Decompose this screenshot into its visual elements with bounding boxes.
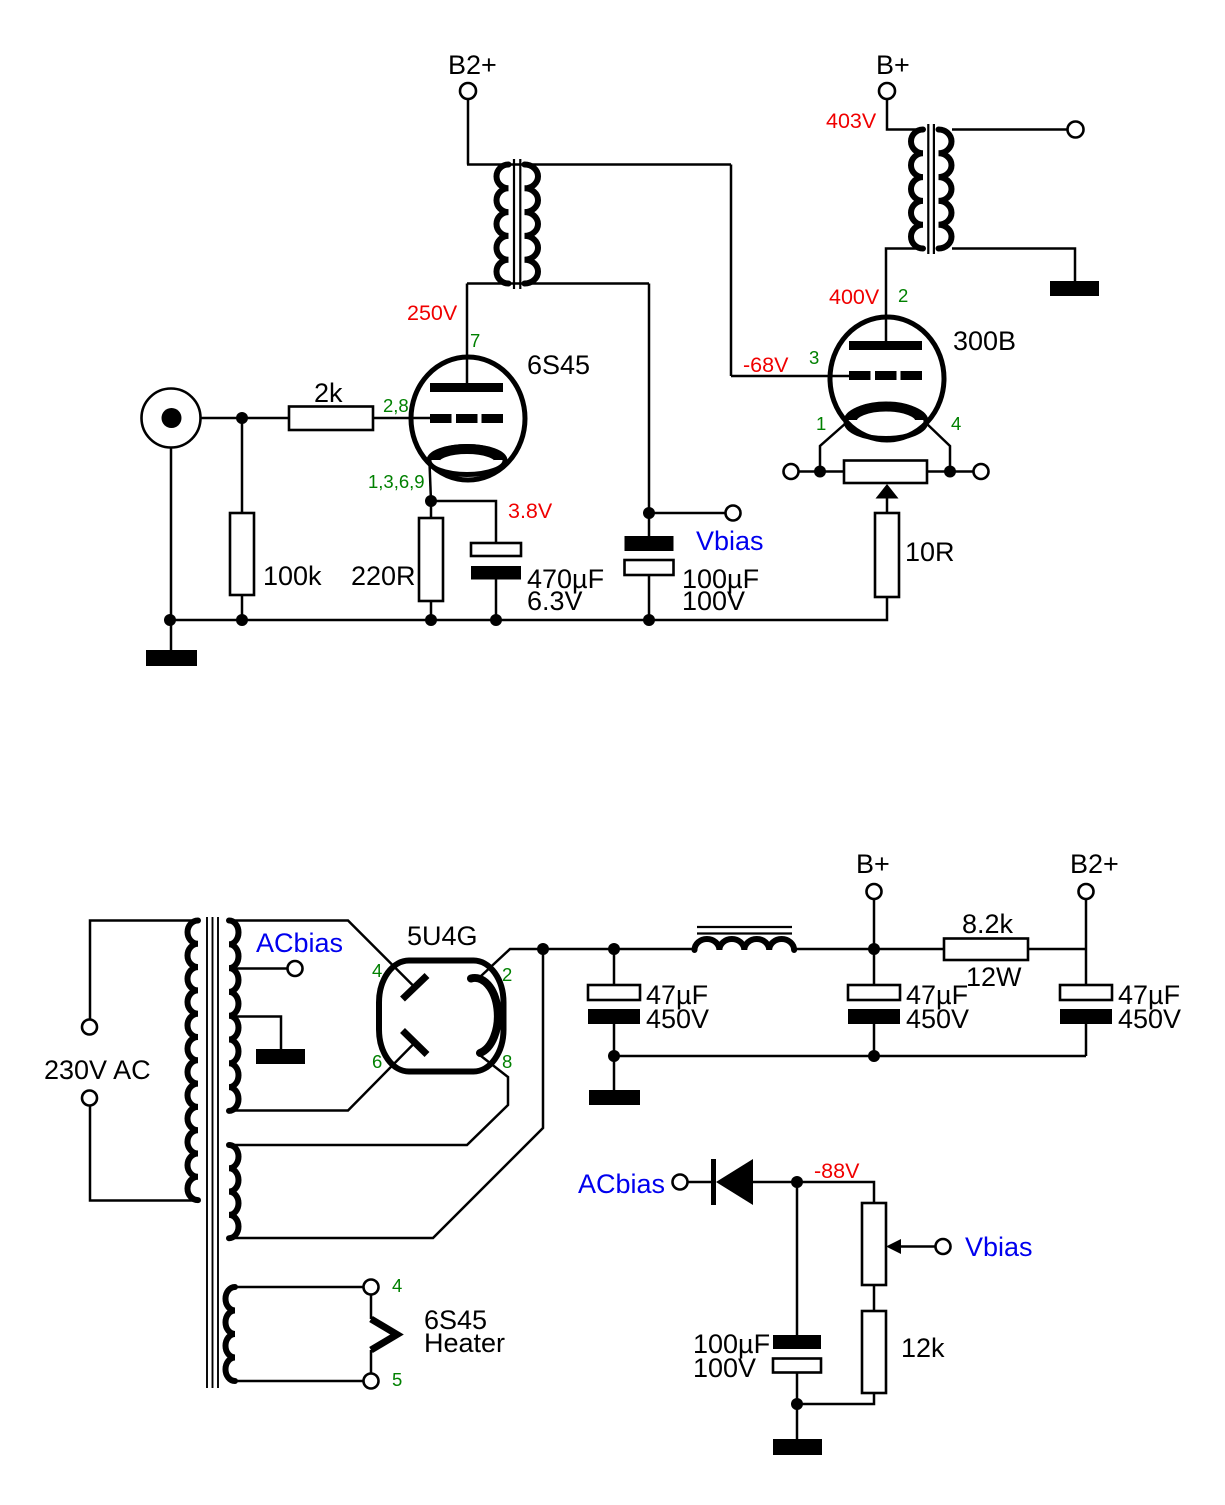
5U4G filament arc [471, 978, 498, 1053]
wire cap2 top stub [873, 949, 876, 985]
svg-text:4: 4 [392, 1275, 402, 1296]
svg-text:12W: 12W [966, 962, 1022, 992]
wire 8.2k to B2+ [1028, 948, 1086, 951]
300B filament [846, 405, 926, 439]
wire input jack to grid resistor [201, 417, 289, 420]
terminal ACbias (bias supply) [673, 1175, 688, 1190]
svg-text:B+: B+ [876, 50, 910, 80]
terminal B+ (psu) [856, 849, 890, 899]
node reservoir cap junction [608, 943, 620, 955]
tube 300B envelope [830, 317, 944, 440]
svg-text:ACbias: ACbias [256, 928, 343, 958]
wire OPT secondary hot to speaker terminal [952, 128, 1068, 131]
tube 6S45 envelope [411, 357, 525, 480]
wire choke to B+ node [795, 948, 945, 951]
svg-text:-68V: -68V [743, 353, 789, 377]
choke L1 core [697, 927, 792, 934]
wire B2+ terminal stub [1085, 899, 1088, 949]
bias pot wiper arrow [886, 1239, 936, 1254]
svg-text:B2+: B2+ [448, 50, 497, 80]
capacitor 47uF 450V (B2+ filter) [1060, 985, 1112, 1024]
wire hum pot left [799, 470, 845, 473]
resistor 12k (bias divider) [862, 1311, 886, 1393]
svg-text:250V: 250V [407, 301, 458, 325]
tube 5U4G envelope [379, 961, 504, 1072]
wire hum pot right [927, 470, 974, 473]
svg-text:10R: 10R [905, 537, 955, 567]
ground (psu) [589, 1090, 640, 1105]
wire 300B grid drop [730, 165, 733, 377]
terminal Vbias (top) [726, 506, 741, 521]
svg-text:2: 2 [898, 285, 908, 306]
wire jack ground side down [170, 448, 173, 621]
potentiometer bias adjust [862, 1203, 886, 1285]
wire cathode junction to bypass cap [431, 501, 496, 543]
wire HV center tap to ground [229, 1017, 281, 1050]
wire cap2 bottom stub [873, 1024, 876, 1056]
wire HV bottom to 5U4G pin 6 [229, 1044, 414, 1111]
ground (input stage) [146, 650, 197, 666]
output transformer T2 secondary winding [939, 130, 952, 249]
capacitor 47uF 450V (B+ filter) [848, 985, 900, 1024]
power transformer T3 HV secondary winding [229, 921, 239, 1111]
power transformer T3 6S45 heater winding [226, 1287, 235, 1381]
interstage transformer T1 secondary winding [525, 165, 539, 284]
svg-text:8: 8 [502, 1051, 512, 1072]
svg-text:450V: 450V [906, 1004, 969, 1034]
svg-text:4: 4 [951, 413, 961, 434]
terminal Vbias (bias supply) [936, 1239, 951, 1254]
svg-text:1,3,6,9: 1,3,6,9 [368, 471, 425, 492]
wire B+ to OPT primary [887, 99, 923, 130]
resistor 8.2k 12W (B2+ dropper) [944, 939, 1028, 961]
svg-text:7: 7 [470, 330, 480, 351]
wire 5U4G pin 8 to heater winding top [229, 1056, 508, 1145]
resistor 2k (grid stopper) [289, 407, 373, 431]
resistor 10R (hum pot to ground) [875, 513, 899, 597]
svg-text:ACbias: ACbias [578, 1169, 665, 1199]
node -88V junction [791, 1176, 803, 1188]
svg-text:2: 2 [502, 964, 512, 985]
svg-text:Heater: Heater [424, 1328, 505, 1358]
node bias ground junction [791, 1398, 803, 1410]
svg-text:300B: 300B [953, 326, 1016, 356]
svg-text:8.2k: 8.2k [962, 909, 1014, 939]
node cathode junction [425, 495, 437, 507]
wire 6S45 heater winding top to terminal [235, 1286, 364, 1289]
svg-text:3.8V: 3.8V [508, 499, 553, 523]
wire cap3 top stub [1085, 949, 1088, 985]
label 6S45 Heater [424, 1305, 505, 1358]
svg-text:Vbias: Vbias [965, 1232, 1033, 1262]
wire 470uF bottom [495, 579, 498, 620]
node B+ terminal junction [868, 943, 880, 955]
6S45 cathode lead wire [430, 463, 432, 501]
wire ground stub [170, 620, 173, 650]
svg-text:400V: 400V [829, 285, 880, 309]
300B anode plate [849, 341, 922, 350]
ground (bias supply) [773, 1439, 822, 1455]
svg-text:450V: 450V [646, 1004, 709, 1034]
svg-text:Vbias: Vbias [696, 526, 764, 556]
capacitor 470uF 6.3V (cathode bypass) [471, 543, 521, 580]
6S45 grid dashes [430, 414, 503, 423]
wire mains primary bottom [90, 1106, 198, 1201]
hum pot wiper arrow [876, 484, 899, 513]
svg-text:4: 4 [372, 960, 382, 981]
terminal B2+ (top) [448, 50, 497, 99]
svg-text:6: 6 [372, 1051, 382, 1072]
svg-text:5: 5 [392, 1369, 402, 1390]
terminal heater pin 5 [364, 1374, 379, 1389]
node input junction [236, 412, 248, 424]
wire psu ground rail [614, 1055, 1086, 1058]
wire 100k bottom [241, 595, 244, 620]
terminal 230V AC live [82, 1020, 97, 1035]
choke L1 winding [695, 939, 795, 950]
wire to Vbias terminal [649, 512, 726, 515]
svg-text:2k: 2k [314, 378, 343, 408]
wire 300B filament lead left [820, 423, 846, 471]
svg-text:6S45: 6S45 [527, 350, 590, 380]
wire mains primary top [90, 921, 198, 1020]
output transformer T2 core [928, 124, 934, 254]
node rail junctions [164, 614, 655, 626]
wire psu ground stub [613, 1056, 616, 1090]
svg-text:B+: B+ [856, 849, 890, 879]
terminal ACbias tap [288, 961, 303, 976]
svg-text:3: 3 [809, 347, 819, 368]
svg-text:230V AC: 230V AC [44, 1055, 151, 1085]
wire 2k to 6S45 grid [373, 417, 430, 420]
svg-text:2,8: 2,8 [383, 395, 409, 416]
wire cathode junction to 220R [430, 501, 433, 518]
svg-text:220R: 220R [351, 561, 416, 591]
power transformer T3 primary winding [187, 921, 198, 1201]
node Vbias junction [643, 507, 655, 519]
6S45 heater element chevron [371, 1295, 397, 1374]
5U4G anode plate 1 [403, 976, 428, 1000]
svg-text:403V: 403V [826, 109, 877, 133]
wire heater winding bottom to B+ node [229, 949, 543, 1238]
ground (speaker return) [1050, 281, 1099, 296]
svg-text:100V: 100V [693, 1353, 756, 1383]
wire OPT secondary cold to ground [952, 249, 1075, 282]
wire 300B grid feed [731, 375, 849, 378]
wire cap1 top stub [613, 949, 616, 985]
wire 5U4G pin 2 to B+ node [481, 949, 543, 976]
wire cap1 bottom stub [613, 1024, 616, 1056]
RCA input jack [142, 389, 201, 448]
wire cap bottom to ground node [796, 1373, 799, 1405]
wire 12k bottom to ground node [797, 1393, 874, 1404]
wire B+ rail to choke [543, 948, 695, 951]
svg-text:1: 1 [816, 413, 826, 434]
svg-text:6.3V: 6.3V [527, 586, 583, 616]
capacitor 47uF 450V (reservoir) [588, 985, 640, 1024]
capacitor 100uF 100V (bias decoupling) [625, 536, 674, 575]
interstage transformer T1 core [514, 159, 520, 289]
interstage transformer T1 primary winding [497, 165, 509, 284]
node psu ground junction 2 [868, 1050, 880, 1062]
wire pot to 12k [873, 1285, 876, 1311]
terminal B2+ (psu) [1070, 849, 1119, 899]
svg-text:12k: 12k [901, 1333, 945, 1363]
wire top rail (T1 windings top, to 300B grid branch) [467, 163, 731, 166]
terminal 230V AC neutral [82, 1091, 97, 1106]
wire T1 secondary return down to Vbias cap [648, 284, 651, 537]
wire bias ground stub [796, 1404, 799, 1439]
wire diode to -88V node [753, 1181, 797, 1184]
node filament right [944, 466, 956, 478]
terminal hum pot right [974, 464, 989, 479]
wire ACbias tap [229, 967, 288, 970]
wire B2+ to interstage transformer primary [467, 99, 470, 165]
wire 100uF bottom [648, 575, 651, 620]
node filament left [814, 466, 826, 478]
5U4G anode plate 2 [403, 1031, 428, 1055]
6S45 cathode [429, 447, 505, 475]
node psu ground junction 1 [608, 1050, 620, 1062]
terminal B+ (top) [876, 50, 910, 99]
6S45 anode plate [430, 383, 503, 392]
wire -88V node to bias pot [797, 1182, 874, 1203]
wire 100k top [241, 418, 244, 513]
svg-text:450V: 450V [1118, 1004, 1181, 1034]
svg-text:-88V: -88V [814, 1159, 860, 1183]
svg-text:B2+: B2+ [1070, 849, 1119, 879]
diode D1 (bias rectifier) [714, 1159, 754, 1205]
wire ground rail (top stage) [170, 597, 887, 620]
wire ACbias terminal to diode [688, 1181, 713, 1184]
wire cap3 bottom stub [1085, 1024, 1088, 1056]
svg-text:100k: 100k [263, 561, 322, 591]
wire 6S45 anode lead [466, 284, 469, 384]
potentiometer hum balance [844, 461, 927, 484]
resistor 220R (cathode bias) [419, 518, 443, 601]
wire OPT primary bottom to 300B anode [886, 249, 923, 342]
300B grid dashes [849, 371, 922, 380]
wire T1 bottom rail [467, 282, 649, 285]
svg-text:5U4G: 5U4G [407, 921, 478, 951]
wire -88V node to filter cap [796, 1182, 799, 1335]
resistor 100k (grid leak) [230, 513, 254, 595]
ground (HV center tap) [256, 1049, 305, 1064]
terminal heater pin 4 [364, 1280, 379, 1295]
capacitor 100uF 100V (bias filter) [773, 1335, 821, 1373]
wire 220R bottom [430, 601, 433, 620]
svg-text:100V: 100V [682, 586, 745, 616]
output transformer T2 primary winding [911, 130, 923, 249]
wire 300B filament lead right [926, 423, 950, 471]
power transformer T3 5U4G heater winding [229, 1145, 239, 1238]
terminal hum pot left [784, 464, 799, 479]
power transformer T3 core [207, 917, 218, 1388]
terminal speaker output [1068, 122, 1084, 138]
node B+ takeoff [537, 943, 549, 955]
wire HV top to 5U4G pin 4 [229, 921, 414, 987]
wire 6S45 heater winding bottom to terminal [235, 1380, 364, 1383]
wire B+ terminal stub [873, 899, 876, 949]
